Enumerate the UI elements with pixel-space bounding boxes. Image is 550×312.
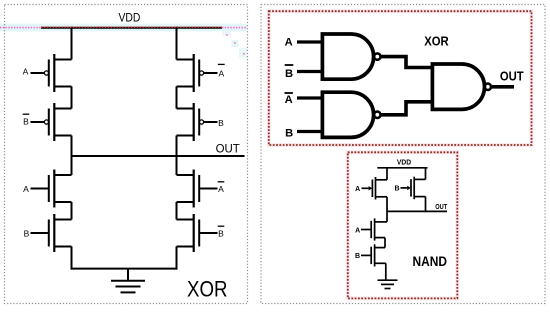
pin label Bbar (M8) <box>218 226 225 238</box>
node OUT rail (nand) <box>387 210 447 212</box>
pin label B (Q4) <box>355 253 360 260</box>
wire M3 to M4 <box>71 202 73 220</box>
power rail VDD <box>41 27 222 29</box>
title XOR (left panel) <box>187 277 228 302</box>
pmos M2 (gate Bbar) <box>31 103 72 141</box>
nand gate G2 <box>322 92 380 137</box>
pin label Bbar (G1) <box>285 65 294 80</box>
wire Q4 to ground <box>385 263 387 280</box>
left panel border (gray dotted) <box>5 5 248 304</box>
wire input B stub <box>297 130 323 133</box>
svg-text:OUT: OUT <box>216 142 241 156</box>
pmos M6 (gate B) <box>177 103 218 141</box>
pin label Abar (G2) <box>285 93 293 106</box>
svg-text:A: A <box>218 184 224 194</box>
svg-text:B: B <box>218 118 224 128</box>
label VDD (nand) <box>397 160 411 167</box>
svg-text:XOR: XOR <box>424 34 449 48</box>
pin label B (M4) <box>24 228 30 238</box>
nmos M8 (gate Bbar) <box>177 214 218 252</box>
pin label A (M1) <box>23 67 29 77</box>
svg-text:B: B <box>285 68 293 80</box>
pin label B (M6) <box>218 118 224 128</box>
label VDD <box>119 11 141 25</box>
svg-text:A: A <box>285 94 293 106</box>
bottom rail <box>71 268 178 270</box>
svg-text:XOR: XOR <box>187 277 228 302</box>
pin label Abar (M7) <box>218 182 225 194</box>
pmos Q2 (gate B) <box>401 177 426 200</box>
wire M7 to M8 <box>176 202 178 220</box>
wire M4 drain to bottom rail <box>71 247 73 270</box>
net VDD dotted highlight (pink over white) <box>0 27 247 55</box>
wire M1 drain to M2 source <box>71 87 73 109</box>
title XOR (nand panel) <box>424 34 449 48</box>
svg-text:B: B <box>23 116 29 126</box>
pin label Abar (M5) <box>218 64 225 78</box>
wire Q2 drain to OUT <box>425 197 427 213</box>
wire G2 output to G3 input <box>381 102 433 115</box>
wire VDD to M5 source <box>176 27 178 60</box>
svg-text:VDD: VDD <box>119 11 141 25</box>
wire M6 drain to OUT node <box>176 136 178 176</box>
wire VDD to Q1 <box>386 168 388 180</box>
wire M5 drain to M6 source <box>176 87 178 109</box>
nand gate G3 <box>432 64 491 109</box>
wire Q2 source to VDD <box>425 168 427 180</box>
wire G1 output to G3 input <box>381 57 433 68</box>
svg-text:B: B <box>394 186 399 193</box>
svg-text:A: A <box>23 67 29 77</box>
pmos Q1 (gate A) <box>362 177 388 200</box>
panel border (red dotted) <box>348 152 458 298</box>
node OUT rail <box>72 155 245 157</box>
svg-text:A: A <box>23 184 29 194</box>
label OUT (nand xor output) <box>500 69 524 84</box>
svg-text:A: A <box>218 69 224 79</box>
nmos Q3 (gate A) <box>361 218 387 240</box>
svg-text:A: A <box>355 186 360 193</box>
ground <box>111 269 145 293</box>
nand gate G1 <box>322 34 380 79</box>
wire input Abar stub <box>297 96 323 99</box>
svg-text:A: A <box>285 37 293 49</box>
panel border (red dotted) <box>269 11 532 145</box>
nmos M3 (gate A) <box>31 170 72 208</box>
nmos Q4 (gate B) <box>361 244 386 266</box>
pin label A (G1) <box>285 37 293 49</box>
wire input A stub <box>297 40 323 43</box>
label OUT <box>216 142 241 156</box>
net VDD highlight band (cyan) <box>0 24 247 58</box>
wire Q1 drain to Q3 <box>386 197 388 222</box>
wire input Bbar stub <box>297 70 323 73</box>
svg-text:NAND: NAND <box>413 253 448 269</box>
pin label A (Q3) <box>355 227 360 234</box>
power rail VDD (nand) <box>377 167 427 169</box>
svg-text:B: B <box>218 228 224 238</box>
pmos M5 (gate Abar) <box>177 54 218 92</box>
title NAND <box>413 253 448 269</box>
svg-text:B: B <box>355 253 360 260</box>
nmos M7 (gate Abar) <box>177 170 218 208</box>
wire OUT <box>491 85 514 89</box>
svg-text:A: A <box>355 227 360 234</box>
svg-text:B: B <box>24 228 30 238</box>
wire M8 drain to bottom rail <box>176 247 178 270</box>
pin label A (Q1) <box>355 186 360 193</box>
svg-text:B: B <box>285 128 293 140</box>
svg-text:OUT: OUT <box>500 69 524 84</box>
wire VDD to M1 source <box>71 27 73 60</box>
svg-text:OUT: OUT <box>435 204 448 211</box>
nmos M4 (gate B) <box>31 214 72 252</box>
pmos M1 (gate A) <box>31 54 72 92</box>
wire Q3 to Q4 <box>384 238 386 248</box>
ground (nand) <box>378 280 398 288</box>
label OUT (nand) <box>435 204 448 211</box>
pin label Bbar (M2) <box>23 114 30 126</box>
right outer panel border (gray dotted) <box>261 5 545 304</box>
pin label B (G2) <box>285 128 293 140</box>
svg-text:VDD: VDD <box>397 160 411 167</box>
wire M2 drain to OUT node <box>71 136 73 176</box>
pin label A (M3) <box>23 184 29 194</box>
pin label B (Q2) <box>394 186 399 193</box>
